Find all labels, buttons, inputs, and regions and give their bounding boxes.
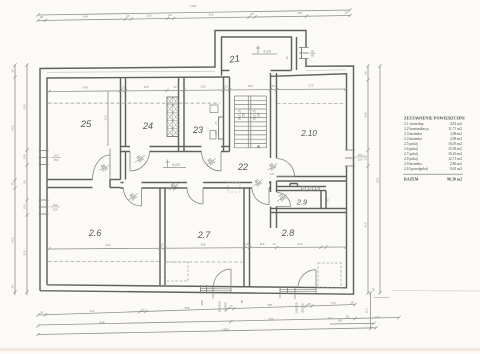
bathroom 2.9 top wall with flues [277, 184, 327, 191]
svg-text:12: 12 [245, 242, 249, 246]
small cabinet in room 23 [210, 131, 216, 140]
window bottom wall room 2.8 [279, 286, 281, 294]
area table ZESTAWIENIE POWIERZCHNI [403, 116, 465, 182]
interior dimension line bottom rooms [47, 245, 347, 250]
svg-text:443: 443 [105, 243, 110, 247]
level mark 5.60 in corridor [163, 160, 186, 168]
svg-text:150: 150 [357, 153, 362, 157]
svg-text:155: 155 [146, 13, 151, 17]
interior dimension line top rooms [47, 87, 347, 93]
door room 24 [130, 152, 150, 172]
door room 2.6 [124, 188, 142, 206]
svg-text:2.7: 2.7 [197, 230, 212, 240]
chimney block left of stairwell [219, 117, 224, 139]
stair direction dot [257, 145, 260, 148]
svg-text:25: 25 [229, 304, 233, 308]
svg-text:2.6 pokój: 2.6 pokój [404, 147, 418, 151]
door label 80/200 room 24 [133, 152, 148, 165]
window left wall lower 150/150 [39, 199, 49, 201]
svg-text:25: 25 [141, 307, 145, 311]
wall between room 25 and room 24 [121, 78, 126, 180]
wall between room 23 and stairwell [224, 77, 230, 152]
bathroom 2.9 bottom wall [271, 209, 347, 213]
svg-text:180: 180 [247, 84, 252, 88]
room 2.10 bottom wall [277, 177, 347, 182]
hall 21 south wall stubs at stair opening [222, 70, 292, 72]
svg-text:ZESTAWIENIE POWIERZCHNI: ZESTAWIENIE POWIERZCHNI [404, 116, 465, 121]
door corridor to vestibule [252, 188, 269, 205]
svg-text:150/220: 150/220 [218, 301, 222, 312]
svg-text:355: 355 [200, 242, 205, 246]
wall between room 2.6 and room 2.7 [160, 188, 165, 286]
svg-text:275: 275 [308, 84, 313, 88]
door room 25 [93, 149, 111, 180]
svg-text:150: 150 [53, 158, 58, 162]
window sill lines bottom wall [201, 289, 317, 292]
bottom right dimension details [330, 291, 389, 330]
window 40/90 in hall 21 right wall [299, 47, 309, 49]
door room 23 [202, 152, 222, 172]
top overall dimension line 1349 [38, 10, 350, 15]
svg-text:150: 150 [364, 155, 368, 160]
chimney block between rooms 24 and 23 [167, 97, 179, 137]
svg-text:12: 12 [160, 243, 164, 247]
svg-text:2.5 pokój: 2.5 pokój [404, 142, 418, 146]
svg-text:2.4 łazienka: 2.4 łazienka [404, 137, 422, 141]
svg-text:29: 29 [257, 113, 261, 117]
svg-text:5,60: 5,60 [172, 162, 181, 167]
svg-text:180: 180 [338, 319, 343, 323]
exterior wall inner face [47, 74, 347, 288]
roof knee line bottom rooms [48, 261, 243, 264]
svg-text:320: 320 [208, 12, 213, 16]
svg-text:2.6: 2.6 [88, 228, 102, 238]
door label 70/200 bathroom 2.9 [275, 191, 290, 204]
svg-text:838: 838 [99, 321, 104, 325]
hall 21 flue column [301, 47, 303, 59]
door label 80/200 room 2.7 [167, 180, 182, 193]
corridor 22 top wall below rooms 24 and 23 [121, 147, 230, 152]
exterior wall outer face [40, 31, 354, 295]
level mark 4.20 in hall 21 [252, 46, 277, 55]
svg-text:90: 90 [311, 54, 315, 58]
door label 80/200 room 2.10 [265, 160, 280, 173]
svg-text:183: 183 [200, 85, 205, 89]
wall between room 2.7 and room 2.8 [244, 188, 250, 287]
svg-text:90,38 m2: 90,38 m2 [447, 178, 462, 182]
svg-text:2.10: 2.10 [300, 129, 317, 138]
svg-text:390: 390 [364, 112, 368, 117]
svg-text:12: 12 [173, 85, 177, 89]
svg-text:25: 25 [126, 14, 130, 18]
svg-text:150: 150 [23, 204, 27, 209]
svg-text:150: 150 [52, 208, 57, 212]
svg-text:12: 12 [121, 85, 125, 89]
svg-text:2.1 wiatrołap: 2.1 wiatrołap [404, 122, 424, 126]
svg-text:310: 310 [23, 250, 27, 255]
svg-text:150: 150 [200, 300, 204, 305]
svg-text:150: 150 [52, 203, 57, 207]
corridor 22 bottom wall [121, 183, 271, 189]
svg-text:243: 243 [297, 242, 302, 246]
svg-text:4,20: 4,20 [263, 49, 272, 54]
left dimension column outer [13, 63, 16, 295]
svg-text:38: 38 [11, 69, 15, 73]
balcony threshold stubs [213, 293, 295, 299]
roof knee line top rooms [48, 102, 346, 104]
door bathroom 2.9 [277, 193, 291, 207]
svg-text:25: 25 [307, 302, 311, 306]
svg-text:355: 355 [184, 306, 189, 310]
svg-text:18: 18 [285, 56, 289, 60]
svg-text:58: 58 [364, 71, 368, 75]
svg-text:2.9: 2.9 [296, 198, 308, 207]
svg-text:2.9 łazienka: 2.9 łazienka [404, 162, 422, 166]
dashed niche near door 23 [228, 183, 240, 193]
entrance hall 21 inner walls [222, 37, 297, 76]
right dimension column inner [366, 64, 369, 294]
stair treads [235, 96, 267, 148]
svg-text:110: 110 [365, 308, 369, 313]
svg-text:24: 24 [142, 121, 153, 131]
svg-text:425: 425 [11, 125, 15, 130]
svg-text:773: 773 [327, 316, 332, 320]
svg-text:90/200: 90/200 [301, 303, 305, 313]
door room 2.10 [277, 159, 295, 177]
faint scan line bottom right [392, 290, 480, 293]
balcony door room 2.8 [298, 270, 316, 294]
svg-text:25: 25 [271, 84, 275, 88]
svg-text:1389: 1389 [221, 328, 228, 332]
svg-text:381: 381 [267, 303, 272, 307]
svg-text:2.3 łazienka: 2.3 łazienka [404, 132, 422, 136]
wall between room 24 and room 23 [179, 78, 185, 152]
svg-text:RAZEM: RAZEM [404, 178, 419, 182]
svg-text:415: 415 [364, 222, 368, 227]
svg-text:150: 150 [374, 315, 379, 319]
svg-text:387: 387 [297, 11, 302, 15]
svg-text:150: 150 [357, 158, 362, 162]
radiator in room 23 [210, 105, 218, 113]
svg-text:25: 25 [250, 12, 254, 16]
bottom overall dimension 1389 [36, 326, 377, 336]
window right wall 150/150 [345, 149, 355, 151]
svg-text:150: 150 [23, 154, 27, 159]
svg-text:75: 75 [240, 300, 244, 304]
top segment dimension line [38, 16, 350, 21]
door label 80/200 vestibule [251, 176, 266, 189]
window bottom wall room 2.7 [200, 285, 202, 294]
svg-text:2.7 pokój: 2.7 pokój [404, 152, 418, 156]
svg-text:325: 325 [104, 115, 108, 120]
svg-text:38: 38 [372, 288, 376, 292]
faint scan band at bottom edge [0, 348, 480, 352]
vertical dimension inside room 25 [107, 91, 109, 146]
svg-text:55: 55 [23, 180, 27, 184]
svg-text:25: 25 [11, 182, 15, 186]
svg-text:18: 18 [346, 315, 350, 319]
svg-text:155: 155 [143, 85, 148, 89]
svg-text:23: 23 [192, 125, 203, 135]
svg-text:21: 21 [228, 53, 241, 66]
svg-text:25: 25 [80, 119, 92, 130]
bottom dimension row 838 750 [36, 316, 400, 328]
svg-text:425: 425 [11, 237, 15, 242]
svg-text:38: 38 [350, 300, 354, 304]
wall between room 25 and room 2.6 [47, 180, 121, 188]
svg-text:25: 25 [224, 84, 228, 88]
wall between stairwell corridor and room 2.10 with vestibule wall below [271, 73, 277, 228]
svg-text:1349: 1349 [190, 4, 197, 8]
door room 2.7 [187, 188, 203, 204]
svg-text:12: 12 [272, 242, 276, 246]
svg-text:831: 831 [376, 177, 380, 182]
svg-text:2.8 pokój: 2.8 pokój [404, 157, 418, 161]
svg-text:348: 348 [82, 15, 87, 19]
scan ghost line in top wall [47, 70, 346, 73]
bottom dimension row segments [36, 303, 356, 317]
svg-text:2.10 przedpokój: 2.10 przedpokój [404, 167, 428, 171]
svg-text:348: 348 [82, 86, 87, 90]
bathroom 2.9 right wall and shaft [321, 191, 326, 209]
svg-text:25: 25 [214, 121, 218, 125]
svg-text:116: 116 [260, 242, 265, 246]
door label 80/200 room 23 [204, 155, 219, 168]
svg-text:125: 125 [270, 172, 275, 176]
stair stringer [235, 96, 267, 148]
svg-text:300: 300 [23, 104, 27, 109]
svg-text:38: 38 [11, 285, 15, 289]
svg-text:150: 150 [53, 154, 58, 158]
svg-text:25: 25 [168, 13, 172, 17]
door label 80/200 room 2.6 [126, 190, 141, 203]
svg-text:2.8: 2.8 [281, 228, 295, 238]
flue circles on bathroom 2.9 wall [302, 187, 306, 191]
svg-text:28: 28 [344, 10, 348, 14]
right dimension column outer [378, 64, 381, 294]
svg-text:28: 28 [40, 15, 44, 19]
balcony door room 2.7 [214, 269, 232, 293]
svg-text:170: 170 [330, 301, 335, 305]
left dimension column inner [25, 63, 28, 295]
svg-text:150/220: 150/220 [295, 302, 299, 313]
svg-text:28: 28 [40, 311, 44, 315]
wardrobe dashed room 2.8 [318, 263, 341, 288]
svg-text:413: 413 [89, 309, 94, 313]
svg-text:750: 750 [268, 317, 273, 321]
door label 80/200 room 25 [97, 162, 111, 174]
svg-text:22: 22 [237, 162, 248, 172]
svg-text:29: 29 [242, 113, 246, 117]
window left wall upper 150/150 [39, 150, 49, 152]
svg-text:2.2 komunikacja: 2.2 komunikacja [404, 127, 429, 131]
wardrobe dashed room 2.7 [166, 262, 189, 281]
